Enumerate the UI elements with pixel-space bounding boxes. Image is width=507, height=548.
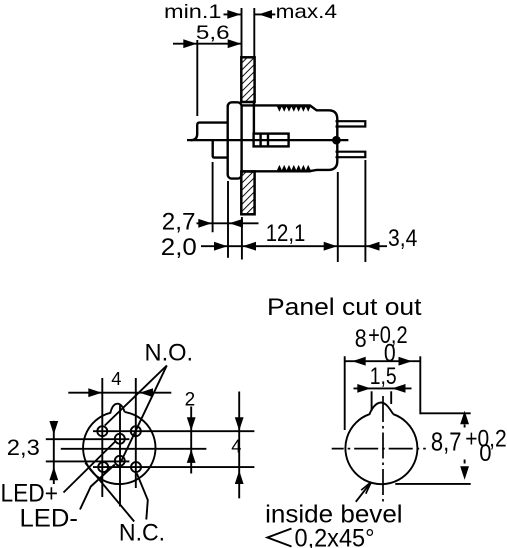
pin column line (left) [101, 378, 103, 497]
svg-text:Panel cut out: Panel cut out [267, 294, 422, 321]
threaded bushing top crest [242, 104, 311, 106]
svg-text:LED-: LED- [20, 505, 78, 532]
svg-text:LED+: LED+ [1, 481, 59, 508]
body rear cap (rounded) [329, 110, 338, 170]
extension line: panel right face [253, 8, 255, 57]
leader N.C. left [85, 463, 134, 522]
pin N.O. right [131, 426, 141, 436]
body top edge + chamfer [310, 106, 328, 111]
pin column line (right) [135, 378, 137, 488]
body front face [253, 103, 255, 134]
switch centerline [187, 139, 348, 141]
extension line: button face (for 5,6) [196, 40, 198, 116]
svg-text:2: 2 [185, 389, 196, 410]
extension line E5 (pin end) [364, 160, 366, 262]
button skirt (lower section) [213, 141, 227, 158]
thread teeth (bottom) [277, 166, 311, 171]
pin N.C. right [131, 462, 141, 472]
plunger / contact block (section) [254, 134, 289, 147]
leader N.O. to left pin [105, 366, 167, 426]
dimension line 2,0 / 12,1 / 3,4 [201, 245, 387, 247]
cutout circle with key notch [345, 403, 417, 485]
leader LED+ [64, 442, 116, 493]
8,7 bottom extension line (circle bottom tangent) [395, 483, 470, 485]
centre reference line [61, 448, 207, 450]
pin row line (LED+ row) [46, 438, 130, 440]
svg-text:0: 0 [479, 440, 491, 467]
threaded bushing bottom crest [242, 170, 311, 172]
svg-text:0,2x45°: 0,2x45° [295, 525, 375, 548]
centreline horizontal (dash-dot) [332, 448, 426, 450]
panel (hatched), lower piece [241, 172, 254, 215]
svg-text:2,0: 2,0 [161, 234, 197, 261]
button (front half-section) [191, 123, 228, 141]
extension lines for 8 dim [344, 356, 346, 430]
svg-text:N.C.: N.C. [119, 519, 165, 546]
svg-text:8,7: 8,7 [431, 427, 462, 457]
pin N.O. left [97, 426, 107, 436]
mounting flange [228, 102, 242, 178]
inside bevel leader arrow [356, 482, 372, 502]
centreline vertical (dash-dot) [382, 396, 384, 505]
panel (hatched), upper piece [241, 57, 254, 102]
svg-text:2,7: 2,7 [162, 209, 196, 236]
extension line E3 (panel face, lower) [241, 217, 243, 260]
label <0,2x45° [268, 529, 292, 547]
terminal pin (bottom) [336, 152, 366, 158]
extension line E1 (button skirt) [212, 162, 214, 232]
svg-text:2,3: 2,3 [7, 435, 40, 460]
pin LED+ [115, 434, 125, 444]
svg-text:min.1: min.1 [164, 1, 222, 23]
leader N.C. to right pin [137, 473, 148, 519]
middle terminal (toward viewer) [332, 136, 341, 145]
extension line E4 (body rear) [337, 172, 339, 262]
8,7 top extension line (circle top tangent) [421, 412, 471, 414]
pin row line (N.O. row) [93, 430, 254, 432]
terminal pin (top) [336, 121, 366, 126]
svg-text:12,1: 12,1 [266, 221, 306, 247]
pin column line (centre) [119, 405, 121, 506]
thread teeth (top) [277, 105, 311, 110]
pin row line (LED- row) [46, 460, 130, 462]
pin LED- [115, 456, 125, 466]
8,7 dimension line + arrows [464, 425, 466, 428]
svg-text:4: 4 [111, 368, 121, 389]
svg-text:8: 8 [355, 325, 367, 353]
pin layout circle with key notch [83, 404, 155, 484]
body bottom edge + chamfer [310, 170, 328, 171]
svg-text:3,4: 3,4 [388, 226, 417, 252]
svg-text:max.4: max.4 [276, 1, 338, 23]
svg-text:1,5: 1,5 [370, 363, 397, 390]
pin row line (N.C. row) [93, 466, 254, 468]
svg-text:5,6: 5,6 [196, 23, 230, 44]
leader N.O. to right pin (extended) [121, 366, 167, 463]
extension line E2 (flange face) [227, 181, 229, 258]
leader LED- [80, 465, 115, 510]
svg-text:N.O.: N.O. [145, 339, 194, 366]
pin N.C. left [98, 462, 108, 472]
extension line: panel left face [241, 8, 243, 57]
